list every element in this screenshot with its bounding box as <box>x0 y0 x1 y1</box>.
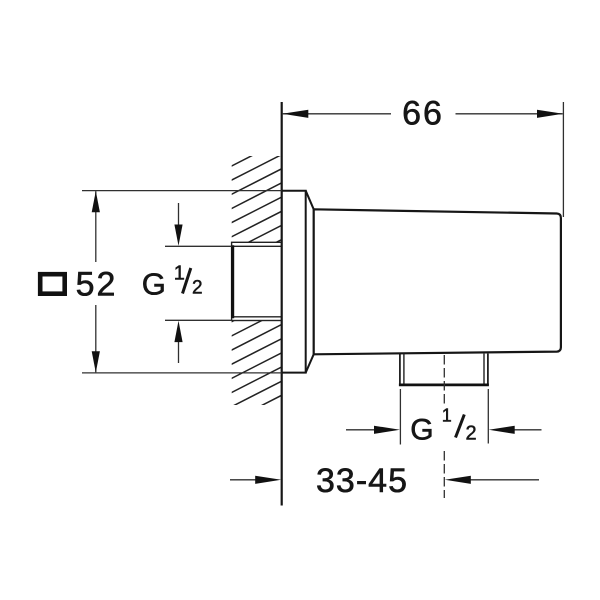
svg-text:33-45: 33-45 <box>316 462 408 500</box>
dim 66 left arrowhead <box>282 110 308 118</box>
inlet G1/2 lower arrowhead (up) <box>174 321 182 342</box>
dim 52 down arrowhead <box>92 351 100 372</box>
dim 52 bottom extension line <box>82 372 282 374</box>
wall hatch <box>230 126 282 436</box>
dim 33-45 left arrowhead (points right at wall) <box>255 476 281 484</box>
body outline <box>314 209 561 354</box>
outlet stub right outer edge <box>487 354 489 386</box>
inlet thread inner line top <box>234 245 282 247</box>
dim 52 up arrowhead <box>92 191 100 212</box>
dim 52 line upper segment <box>95 191 97 262</box>
svg-text:1: 1 <box>174 263 185 285</box>
svg-text:G: G <box>142 267 166 302</box>
dim 33-45 right arrow tail <box>466 479 539 481</box>
dim 52 line lower segment <box>95 305 97 372</box>
svg-text:66: 66 <box>402 95 444 133</box>
dim 33-45 left arrow tail <box>230 479 262 481</box>
outlet stub left inner thread line <box>403 354 405 384</box>
outlet G1/2 label slash <box>456 415 465 438</box>
inlet G1/2 top extension line <box>165 245 232 247</box>
outlet G1/2 left arrowhead <box>374 426 400 434</box>
inlet G1/2 bottom extension line <box>165 319 232 321</box>
outlet stub bottom thick edge <box>399 383 489 386</box>
square symbol <box>40 274 64 294</box>
inlet thread inner line bottom <box>234 316 282 318</box>
outlet G1/2 left arrow tail <box>346 429 378 431</box>
outlet centerline (dashed) lower run <box>443 451 445 498</box>
svg-text:52: 52 <box>76 266 118 304</box>
outlet centerline (dashed) upper run <box>443 355 445 404</box>
dim 66 line left segment <box>283 113 391 115</box>
wall face line <box>281 102 283 506</box>
inlet thread end face thick bar <box>231 245 234 318</box>
outlet stub left outer edge <box>399 354 401 386</box>
dim 66 line right segment <box>456 113 563 115</box>
dim 66 right arrowhead <box>537 110 563 118</box>
dim 33-45 right arrowhead (points left at centerline) <box>445 476 471 484</box>
inlet G1/2 lower arrow line <box>178 341 180 363</box>
outlet G1/2 right arrow tail <box>510 429 542 431</box>
body-chamfer junction line <box>313 209 315 354</box>
flange chamfer top <box>306 191 314 210</box>
svg-text:2: 2 <box>192 278 203 299</box>
svg-text:1: 1 <box>442 406 452 426</box>
inlet G1/2 upper arrow line <box>178 203 180 226</box>
dim 52 top extension line <box>82 190 282 192</box>
outlet G1/2 left extension line <box>399 389 401 445</box>
inlet thread block outer rect <box>232 242 282 320</box>
svg-text:2: 2 <box>466 422 477 444</box>
flange chamfer bottom <box>306 354 314 372</box>
outlet G1/2 right arrowhead <box>489 426 515 434</box>
flange (escutcheon side view) <box>282 191 306 373</box>
outlet G1/2 right extension line <box>487 389 489 444</box>
inlet G1/2 label slash <box>183 268 191 294</box>
dim 66 right extension line <box>562 102 564 217</box>
outlet stub right inner thread line <box>483 354 485 384</box>
inlet G1/2 upper arrowhead (down) <box>174 225 182 246</box>
svg-text:G: G <box>410 413 433 446</box>
